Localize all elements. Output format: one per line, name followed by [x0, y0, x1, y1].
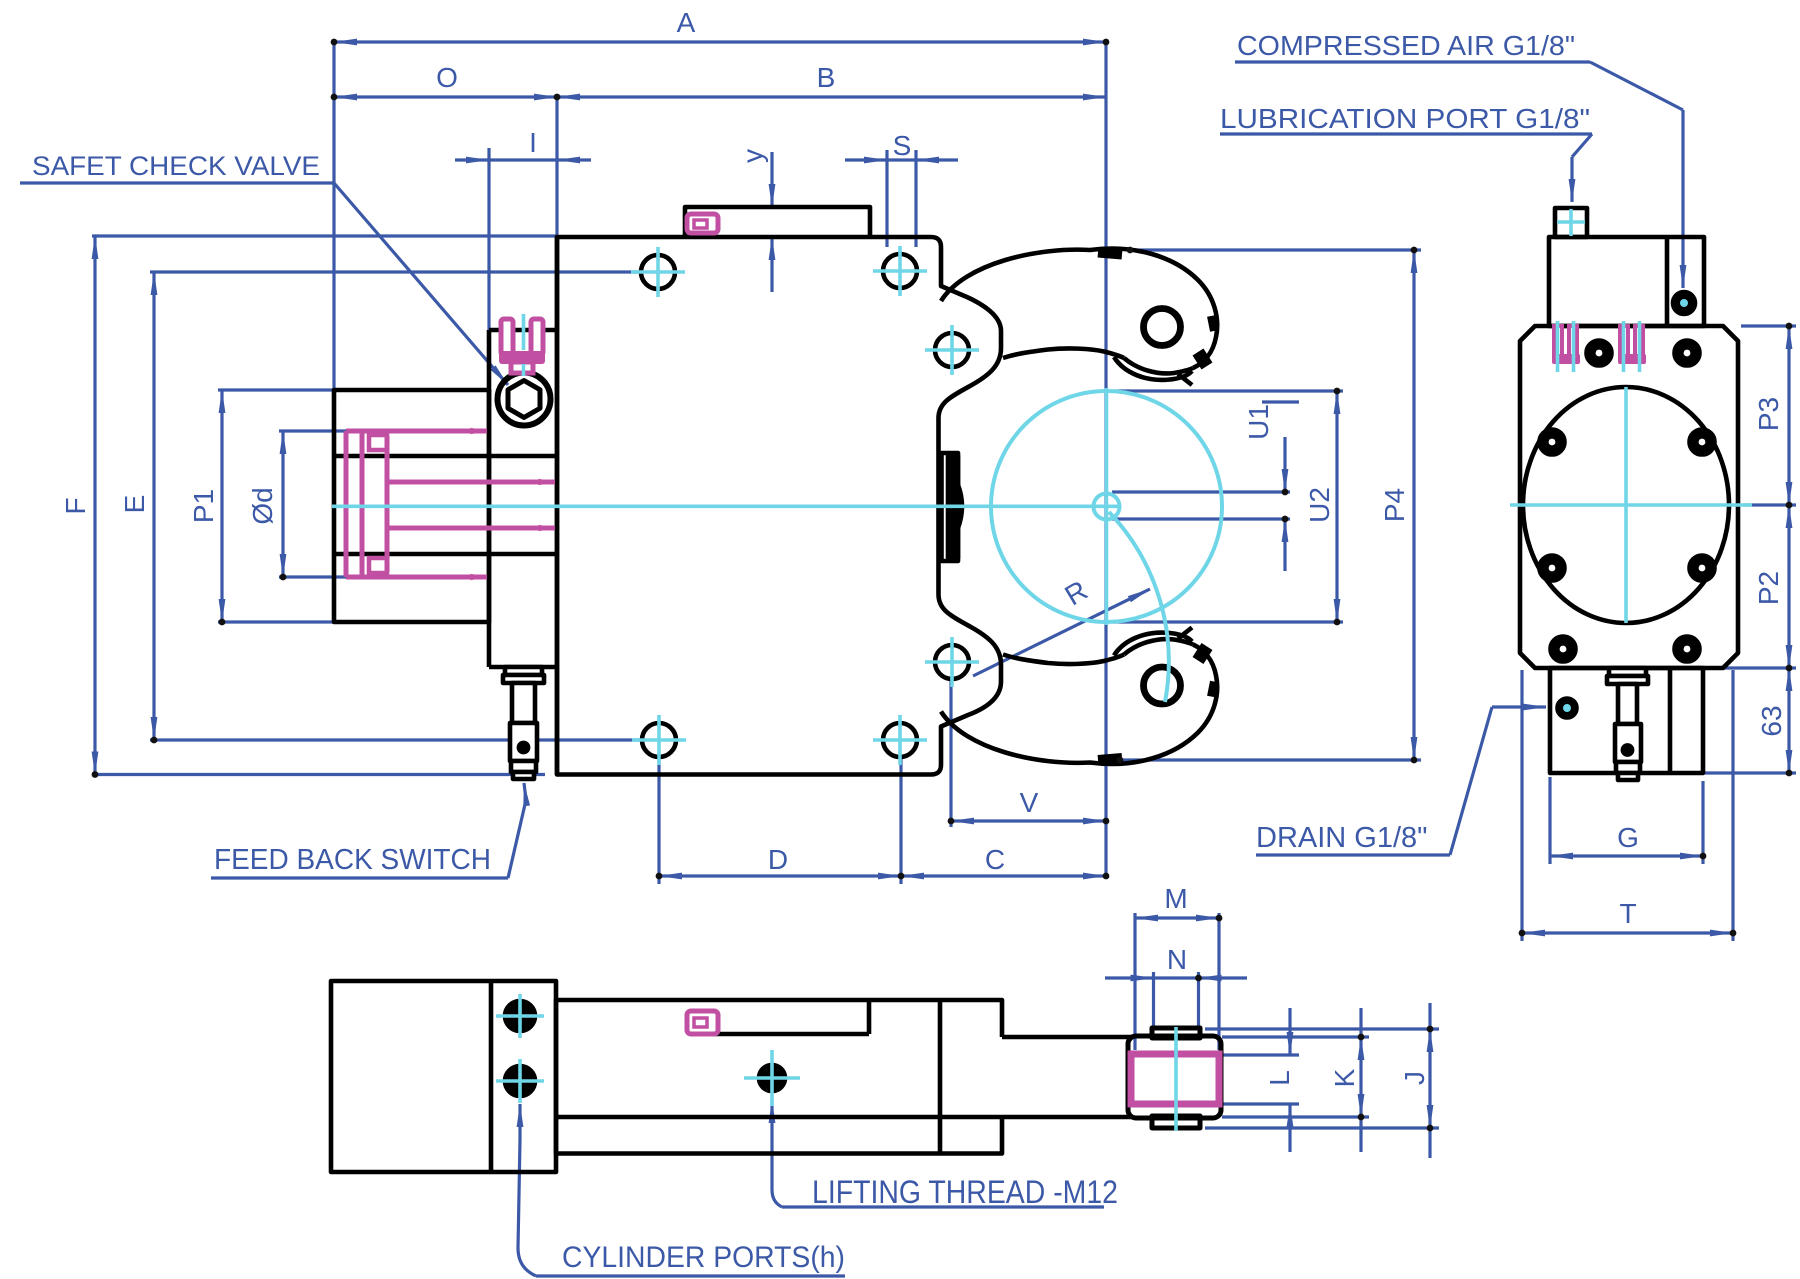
- svg-text:A: A: [677, 7, 696, 38]
- svg-text:O: O: [436, 62, 458, 93]
- svg-text:63: 63: [1756, 705, 1787, 736]
- svg-text:L: L: [1264, 1070, 1295, 1086]
- svg-text:y: y: [737, 149, 768, 163]
- svg-text:U1: U1: [1243, 404, 1274, 440]
- svg-text:LIFTING THREAD -M12: LIFTING THREAD -M12: [812, 1174, 1118, 1210]
- svg-text:CYLINDER PORTS(h): CYLINDER PORTS(h): [562, 1241, 845, 1274]
- svg-text:P4: P4: [1379, 488, 1410, 522]
- svg-text:DRAIN G1/8": DRAIN G1/8": [1256, 822, 1427, 854]
- svg-text:D: D: [768, 844, 788, 875]
- svg-text:Ød: Ød: [247, 487, 278, 524]
- svg-text:FEED BACK SWITCH: FEED BACK SWITCH: [214, 844, 491, 876]
- svg-text:I: I: [529, 127, 537, 158]
- svg-text:V: V: [1020, 787, 1039, 818]
- svg-text:E: E: [119, 495, 150, 514]
- svg-text:SAFET CHECK VALVE: SAFET CHECK VALVE: [32, 151, 320, 181]
- svg-text:P2: P2: [1753, 571, 1784, 605]
- svg-text:P1: P1: [188, 489, 219, 523]
- svg-text:LUBRICATION PORT G1/8": LUBRICATION PORT G1/8": [1220, 103, 1590, 134]
- svg-text:B: B: [817, 62, 836, 93]
- svg-text:S: S: [893, 130, 912, 161]
- svg-text:K: K: [1329, 1068, 1360, 1087]
- svg-text:COMPRESSED AIR G1/8": COMPRESSED AIR G1/8": [1237, 30, 1575, 61]
- svg-text:C: C: [985, 844, 1005, 875]
- svg-text:T: T: [1619, 898, 1636, 929]
- svg-text:J: J: [1399, 1071, 1430, 1085]
- svg-text:F: F: [60, 497, 91, 514]
- svg-text:P3: P3: [1753, 397, 1784, 431]
- svg-text:M: M: [1164, 883, 1187, 914]
- svg-text:N: N: [1167, 944, 1187, 975]
- svg-text:G: G: [1617, 822, 1639, 853]
- svg-text:U2: U2: [1304, 487, 1335, 523]
